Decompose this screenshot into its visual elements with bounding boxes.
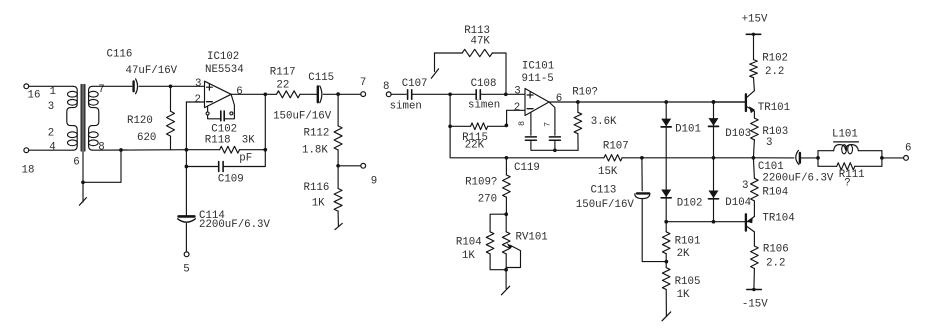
svg-text:R117: R117 bbox=[270, 67, 296, 79]
svg-text:6: 6 bbox=[905, 143, 911, 155]
svg-text:1K: 1K bbox=[312, 197, 325, 209]
svg-text:-15V: -15V bbox=[742, 298, 768, 310]
svg-text:47uF/16V: 47uF/16V bbox=[126, 65, 178, 77]
svg-text:18: 18 bbox=[22, 165, 35, 177]
svg-text:1: 1 bbox=[50, 86, 56, 98]
svg-text:NE5534: NE5534 bbox=[205, 64, 244, 76]
svg-text:C113: C113 bbox=[591, 184, 617, 196]
svg-text:R103: R103 bbox=[762, 126, 788, 138]
svg-text:RV101: RV101 bbox=[516, 232, 548, 244]
svg-text:R104: R104 bbox=[762, 187, 788, 199]
svg-text:911-5: 911-5 bbox=[522, 73, 554, 85]
svg-text:C116: C116 bbox=[107, 49, 133, 61]
svg-text:R112: R112 bbox=[304, 128, 330, 140]
svg-text:C115: C115 bbox=[308, 72, 334, 84]
svg-text:3: 3 bbox=[766, 137, 772, 149]
svg-text:2200uF/6.3V: 2200uF/6.3V bbox=[199, 219, 271, 231]
svg-text:C107: C107 bbox=[402, 78, 428, 90]
svg-text:2: 2 bbox=[195, 94, 201, 106]
svg-text:R120: R120 bbox=[127, 115, 153, 127]
svg-text:22K: 22K bbox=[465, 140, 485, 152]
svg-text:C109: C109 bbox=[218, 173, 244, 185]
svg-text:3: 3 bbox=[514, 86, 520, 98]
svg-text:2: 2 bbox=[48, 128, 54, 140]
svg-text:D103: D103 bbox=[725, 128, 751, 140]
svg-text:15K: 15K bbox=[598, 166, 618, 178]
svg-text:R116: R116 bbox=[304, 182, 330, 194]
svg-text:3.6K: 3.6K bbox=[591, 116, 617, 128]
svg-text:simen: simen bbox=[390, 101, 422, 113]
svg-text:3: 3 bbox=[742, 180, 748, 192]
svg-text:3K: 3K bbox=[242, 134, 255, 146]
svg-text:R102: R102 bbox=[762, 53, 788, 65]
svg-text:2.2: 2.2 bbox=[766, 257, 785, 269]
svg-text:620: 620 bbox=[137, 132, 156, 144]
svg-text:22: 22 bbox=[276, 80, 289, 92]
svg-text:3: 3 bbox=[195, 78, 201, 90]
svg-text:16: 16 bbox=[28, 89, 41, 101]
svg-text:9: 9 bbox=[371, 175, 377, 187]
svg-text:TR104: TR104 bbox=[762, 212, 794, 224]
svg-text:7: 7 bbox=[360, 77, 366, 89]
svg-text:?: ? bbox=[844, 178, 850, 190]
svg-text:6: 6 bbox=[73, 157, 79, 169]
svg-text:D104: D104 bbox=[725, 197, 751, 209]
svg-text:simen: simen bbox=[468, 99, 500, 111]
svg-text:R109?: R109? bbox=[465, 177, 497, 189]
svg-text:3: 3 bbox=[48, 101, 54, 113]
svg-text:2.2: 2.2 bbox=[765, 66, 784, 78]
svg-text:C102: C102 bbox=[211, 124, 237, 136]
svg-text:1K: 1K bbox=[677, 289, 690, 301]
svg-text:C101: C101 bbox=[758, 161, 784, 173]
svg-text:D102: D102 bbox=[677, 198, 703, 210]
svg-text:5: 5 bbox=[183, 263, 189, 275]
svg-text:R101: R101 bbox=[675, 235, 701, 247]
svg-text:6: 6 bbox=[236, 86, 242, 98]
svg-text:R107: R107 bbox=[603, 141, 629, 153]
svg-text:R118: R118 bbox=[205, 134, 231, 146]
svg-text:D101: D101 bbox=[675, 123, 701, 135]
svg-text:47K: 47K bbox=[471, 36, 491, 48]
svg-text:L101: L101 bbox=[832, 129, 858, 141]
svg-text:8: 8 bbox=[98, 141, 104, 153]
svg-text:6: 6 bbox=[556, 93, 562, 105]
svg-text:2: 2 bbox=[514, 102, 520, 114]
svg-text:pF: pF bbox=[239, 152, 252, 164]
svg-text:150uF/16V: 150uF/16V bbox=[576, 199, 635, 211]
svg-text:2200uF/6.3V: 2200uF/6.3V bbox=[762, 172, 834, 184]
svg-text:+15V: +15V bbox=[742, 14, 768, 26]
svg-text:8: 8 bbox=[517, 121, 527, 126]
svg-text:4: 4 bbox=[49, 141, 55, 153]
svg-text:1.8K: 1.8K bbox=[302, 144, 328, 156]
svg-text:R104: R104 bbox=[456, 236, 482, 248]
svg-text:R105: R105 bbox=[675, 276, 701, 288]
svg-text:R10?: R10? bbox=[572, 86, 598, 98]
svg-text:IC102: IC102 bbox=[207, 51, 239, 63]
svg-text:R111: R111 bbox=[839, 169, 865, 181]
svg-text:150uF/16V: 150uF/16V bbox=[273, 110, 332, 122]
svg-text:7: 7 bbox=[543, 122, 553, 127]
svg-text:2K: 2K bbox=[677, 248, 690, 260]
svg-text:270: 270 bbox=[478, 193, 497, 205]
svg-text:R106: R106 bbox=[763, 244, 789, 256]
svg-text:TR101: TR101 bbox=[758, 102, 790, 114]
svg-text:1K: 1K bbox=[462, 250, 475, 262]
svg-text:IC101: IC101 bbox=[522, 61, 554, 73]
svg-text:8: 8 bbox=[383, 81, 389, 93]
svg-text:C119: C119 bbox=[514, 162, 540, 174]
svg-text:C108: C108 bbox=[471, 78, 497, 90]
